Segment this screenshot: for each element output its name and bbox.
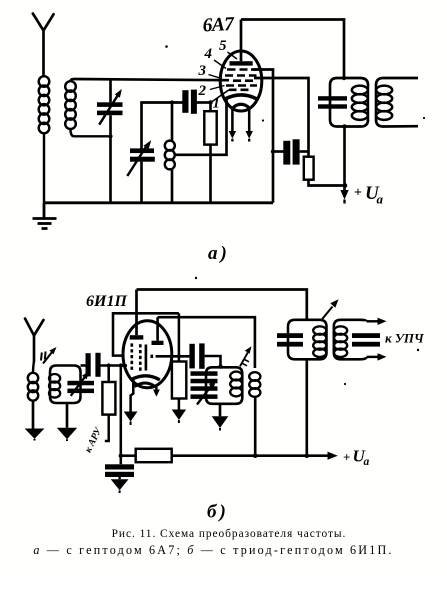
coil L4 (primary winding) [352, 86, 368, 120]
resistor R2 (screen dropping) [304, 157, 348, 188]
capacitor C11 (secondary tank cap) [352, 333, 380, 338]
coil L1 (antenna coil) [39, 75, 50, 203]
coupling arrow (IF transformer b) [322, 299, 339, 319]
cathode lead to ground [131, 380, 134, 412]
resistor R1 (oscillator grid leak) [204, 100, 216, 203]
IF transformer T1 secondary [376, 78, 418, 127]
wire: heptode anode to IF transformer [137, 290, 307, 321]
wire: injection grid frame riser [113, 313, 179, 355]
heater lead with arrow (left) [229, 108, 236, 142]
IF transformer T2 primary tank [277, 320, 327, 456]
wire: thin link from junction to grid 1 [212, 90, 230, 102]
grids of V1 (dashed rows) [225, 70, 258, 90]
ground arrow (oscillator tank) [212, 404, 229, 431]
ground [33, 203, 57, 229]
wire: grid node down to cathode bus [120, 366, 123, 465]
wire: signal grid entry [121, 364, 127, 367]
input tank frame (circuit b) [50, 366, 81, 404]
wire: triode grid line [156, 354, 190, 358]
capacitor C2 (variable tuning, oscillator) [127, 140, 155, 203]
cathode of V1 [224, 95, 258, 100]
scan specks [165, 45, 425, 385]
capacitor C10 (primary tank cap) [277, 333, 303, 338]
wire: top signal line to grid [74, 79, 230, 80]
wire: oscillator grid line [142, 103, 212, 149]
svg-text:3: 3 [198, 63, 207, 79]
coil L2 (input tank coil) [65, 79, 110, 136]
ground arrow (cathode) [124, 412, 138, 426]
svg-text:6И1П: 6И1П [86, 293, 127, 310]
svg-text:а: а [377, 192, 384, 207]
coil L8 (oscillator tank coil) [230, 372, 242, 397]
output arrow top (to IF amp) [367, 318, 387, 325]
svg-text:6А7: 6А7 [202, 14, 236, 37]
label +Ua (circuit a) [354, 183, 384, 207]
label +Ua (circuit b) [343, 447, 370, 469]
anode of V1 [230, 20, 253, 66]
wire: triode anode to feedback coil [158, 317, 255, 368]
svg-text:а — с гептодом 6А7; б — с трио: а — с гептодом 6А7; б — с триод-гептодом… [33, 543, 393, 557]
tube V1 (heptode 6A7) envelope [220, 51, 262, 111]
heptode anode of V2 [130, 290, 144, 340]
svg-text:б): б) [207, 502, 229, 523]
capacitor C3 (oscillator grid coupling) [182, 90, 197, 114]
capacitor C12 (cathode/AGC bypass) [105, 464, 134, 479]
wire: +Ua feed of circuit a [340, 127, 348, 204]
svg-text:а): а) [208, 243, 230, 264]
svg-text:4: 4 [204, 46, 213, 62]
resistor R3 (AGC grid resistor) [102, 366, 115, 442]
heater lead with arrow (right) [246, 108, 253, 142]
node: oscillator coil top junction [170, 100, 174, 104]
capacitor C7 (signal grid coupling) [86, 353, 125, 377]
svg-text:5: 5 [219, 38, 227, 54]
coil L5 (secondary winding) [376, 86, 392, 120]
capacitor C9 (variable, oscillator tank) [191, 371, 218, 404]
wire: bottom bus of circuit a [44, 201, 273, 204]
triode anode of V2 [152, 317, 164, 345]
wire: cathode tap line [175, 100, 227, 155]
oscillator tank frame (circuit b) [206, 367, 242, 404]
pin label 5 [219, 38, 237, 59]
antenna WA2 [25, 319, 44, 362]
ground arrow (antenna coil) [25, 429, 45, 441]
svg-text:а: а [364, 456, 370, 468]
wire: grid 2 lead to screen resistor [254, 78, 309, 157]
cathode of V2 [130, 376, 159, 380]
resistor R5 (decoupling, horizontal) [119, 449, 172, 462]
ground arrow (bypass capacitor) [111, 479, 129, 493]
svg-text:Рис. 11. Схема преобразователя: Рис. 11. Схема преобразователя частоты. [112, 528, 347, 540]
coil L11 (secondary winding) [334, 326, 347, 357]
coupling arrow (oscillator transformer) [240, 346, 252, 366]
heater arrow lead [153, 387, 160, 397]
ground arrow (input tank) [57, 403, 77, 441]
pin label 3 [198, 63, 223, 79]
coil L7 (input tank coil) [49, 374, 60, 398]
svg-text:к УПЧ: к УПЧ [385, 331, 425, 346]
svg-text:2: 2 [198, 83, 207, 99]
tube V2 (triode-heptode 6I1P) envelope [123, 321, 172, 388]
wire: anode lead to IF transformer [241, 20, 344, 79]
capacitor C4 (screen bypass) [271, 139, 309, 164]
IF transformer T1 primary tank [318, 76, 368, 129]
resistor R4 (triode grid leak) [172, 313, 186, 409]
pin label 2 [198, 83, 225, 99]
coil L6 (antenna coupling coil) [28, 361, 38, 429]
wire: screen lead to bypass capacitor [253, 70, 273, 203]
svg-text:к АРУ: к АРУ [83, 425, 105, 454]
ground arrow (triode grid leak) [172, 410, 186, 424]
pin label 1 [213, 96, 221, 112]
capacitor C1 (variable tuning, input) [97, 79, 123, 203]
coil L9 (triode feedback coil) [249, 372, 260, 456]
grids of V2 (dashed columns) [132, 343, 152, 370]
wire: tank to coupling capacitor [81, 364, 86, 367]
capacitor C8 (oscillator grid coupling) [189, 343, 222, 368]
output arrow bottom (to IF amp) [367, 353, 387, 360]
antenna WA1 [33, 14, 54, 76]
svg-text:1: 1 [213, 96, 221, 112]
coil L10 (primary winding) [313, 326, 326, 357]
trimmer marks with arrow (antenna coupling) [41, 347, 57, 364]
IF transformer T2 secondary [334, 318, 387, 361]
pin label 4 [204, 46, 227, 69]
wire: +Ua bus of circuit b [172, 452, 338, 460]
capacitor C6 (variable, input tank) [67, 371, 94, 396]
heater of V2 [135, 383, 156, 387]
svg-text:+: + [354, 186, 362, 201]
heater of V1 [233, 104, 250, 108]
coil L3 (oscillator coil with cathode tap) [165, 103, 175, 203]
svg-text:+: + [343, 450, 350, 465]
capacitor C5 (primary tank cap) [318, 96, 347, 100]
